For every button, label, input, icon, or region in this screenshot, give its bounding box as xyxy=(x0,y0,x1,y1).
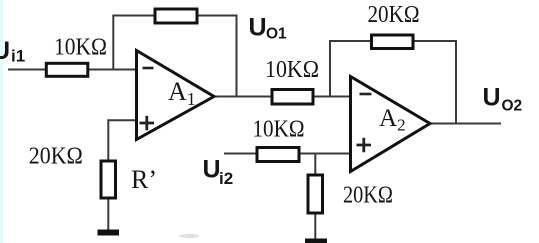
wire Ui1 input xyxy=(8,69,46,71)
wire node to R7 top xyxy=(314,154,316,176)
wire A1 output xyxy=(213,96,272,98)
svg-text:20KΩ: 20KΩ xyxy=(368,2,420,28)
wire R1 to A1 inverting input xyxy=(88,69,136,71)
wire Ui2 input xyxy=(224,153,257,155)
svg-text:10KΩ: 10KΩ xyxy=(253,117,305,143)
svg-text:i2: i2 xyxy=(219,169,233,188)
ground (below R') xyxy=(98,230,120,236)
svg-text:R’: R’ xyxy=(131,165,157,194)
resistor A1 feedback (unlabeled) xyxy=(155,9,197,23)
svg-text:O1: O1 xyxy=(266,26,287,43)
op-amp A2 triangle xyxy=(351,77,431,172)
wire A1 noninverting input xyxy=(107,119,136,121)
svg-text:10KΩ: 10KΩ xyxy=(265,57,319,83)
op-amp A2 minus sign xyxy=(360,93,372,96)
svg-text:i1: i1 xyxy=(11,47,25,66)
wire A1 feedback right vertical xyxy=(236,15,238,97)
resistor 20K A2 feedback (R5) xyxy=(372,35,414,49)
svg-text:20KΩ: 20KΩ xyxy=(29,144,83,170)
svg-text:U: U xyxy=(249,14,267,42)
wire A2 feedback left vertical xyxy=(329,40,331,97)
wire R' bottom to ground xyxy=(107,198,109,231)
svg-text:U: U xyxy=(483,84,501,112)
svg-text:10KΩ: 10KΩ xyxy=(54,35,107,61)
wire A1 feedback left vertical xyxy=(112,15,114,70)
op-amp A1 triangle xyxy=(137,51,215,140)
svg-text:U: U xyxy=(0,37,10,65)
wire A2 output xyxy=(428,123,501,125)
wire node to R' top xyxy=(107,119,109,161)
op-amp A1 minus sign xyxy=(143,67,154,70)
wire A1 feedback top left xyxy=(112,15,155,17)
wire R4 to A2 noninverting input xyxy=(299,153,351,155)
wire A1 feedback top right xyxy=(197,15,237,17)
resistor 10K from Ui2 (R4) xyxy=(257,148,299,162)
wire A2 feedback top left xyxy=(329,40,371,42)
svg-text:20KΩ: 20KΩ xyxy=(343,183,393,209)
resistor 10K input (R1) xyxy=(46,63,88,76)
svg-text:O2: O2 xyxy=(502,98,523,115)
resistor R' vertical xyxy=(101,161,116,198)
op-amp A2 plus sign xyxy=(357,138,372,152)
resistor 20K vertical (R7) xyxy=(308,175,323,213)
wire A2 feedback top right xyxy=(413,40,457,42)
resistor 10K interstage (R3) xyxy=(272,90,313,105)
left edge tint xyxy=(0,0,3,243)
ground (below R7) xyxy=(305,239,327,243)
op-amp A1 plus sign xyxy=(140,116,155,130)
wire R3 to A2 inverting input xyxy=(313,96,351,98)
wire R7 bottom to ground xyxy=(314,213,316,240)
svg-text:U: U xyxy=(203,156,221,184)
wire A2 feedback right vertical xyxy=(455,40,457,123)
